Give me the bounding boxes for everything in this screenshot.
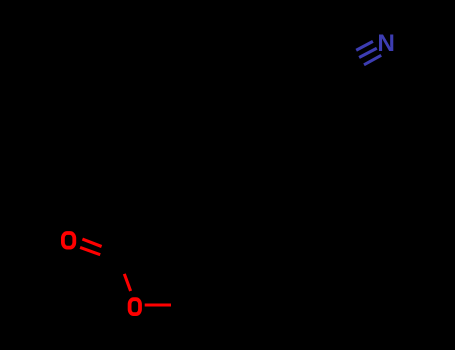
svg-text:N: N <box>377 30 395 57</box>
